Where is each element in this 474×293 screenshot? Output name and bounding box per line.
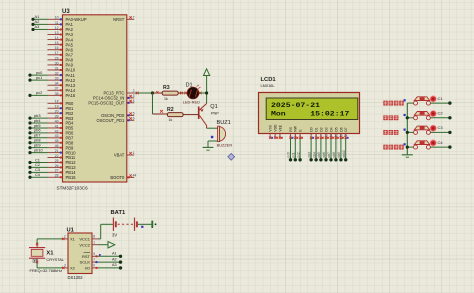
wire net pb6 to U3 [30, 132, 48, 134]
node pb4 [28, 118, 41, 125]
wire LCD pin net pc2 [299, 138, 301, 159]
svg-text:R3: R3 [163, 85, 170, 91]
svg-text:7: 7 [93, 258, 95, 262]
node pb3 [28, 113, 40, 120]
ground under buttons [402, 155, 413, 157]
svg-text:VSS: VSS [269, 124, 273, 131]
junction node on button bus row 2 [406, 116, 409, 119]
battery BAT1 [113, 218, 136, 231]
svg-text:pb4: pb4 [312, 152, 316, 158]
node pb9 [28, 142, 40, 149]
svg-text:Q1: Q1 [210, 104, 217, 110]
svg-text:PA15: PA15 [66, 93, 76, 98]
value FREQ=32.768kHz [30, 268, 63, 273]
svg-text:1k: 1k [164, 97, 168, 101]
svg-text:U3: U3 [62, 9, 70, 15]
node C1 [28, 157, 40, 164]
svg-text:19: 19 [55, 105, 59, 109]
svg-text:2: 2 [64, 235, 66, 239]
LCD text line 1 [271, 102, 320, 109]
svg-text:OSCOUT_PD1: OSCOUT_PD1 [97, 118, 125, 123]
button SW3 state square [404, 129, 406, 131]
wire button SW4 to net C4 [430, 146, 450, 148]
sheet marker diamond [228, 153, 235, 160]
svg-text:7: 7 [133, 16, 135, 20]
node pb6 under LCD [322, 152, 327, 162]
U3 left pin names [66, 17, 87, 180]
svg-text:34: 34 [55, 82, 59, 86]
label U3 [62, 9, 70, 15]
svg-text:SCLK: SCLK [80, 260, 91, 265]
svg-text:C4: C4 [35, 172, 41, 177]
svg-text:pb10: pb10 [34, 147, 43, 152]
svg-text:45: 45 [55, 139, 59, 143]
svg-text:PNP: PNP [211, 112, 219, 116]
label LCD1 [261, 77, 277, 83]
svg-text:VCC1: VCC1 [79, 237, 90, 242]
wire PC13_RTC to junction [134, 92, 152, 95]
U1 pin state squares [96, 254, 101, 269]
node pc0 [28, 70, 43, 77]
chinese label row 2 [383, 115, 398, 120]
terminal at battery positive [152, 221, 156, 228]
wire battery positive terminal [138, 223, 152, 225]
U3 right pin stubs [127, 19, 134, 177]
wire LCD pin net pb5 [320, 138, 322, 159]
node pb10 [28, 147, 43, 154]
svg-text:10: 10 [55, 16, 59, 20]
svg-text:VEE: VEE [278, 124, 282, 131]
svg-text:pc1: pc1 [292, 152, 296, 157]
node C1 [438, 96, 452, 105]
label Q1 [210, 104, 217, 110]
svg-text:41: 41 [55, 124, 59, 128]
node C3 [438, 125, 452, 134]
svg-text:1k: 1k [169, 118, 173, 122]
svg-text:D5: D5 [334, 127, 338, 131]
svg-text:VBAT: VBAT [114, 153, 125, 158]
svg-text:6: 6 [93, 264, 95, 268]
node A1 at U1 [112, 252, 122, 259]
wire Q1 collector to buzzer [207, 127, 218, 129]
svg-text:18: 18 [55, 100, 59, 104]
svg-text:20: 20 [55, 110, 59, 114]
svg-text:3V: 3V [112, 233, 117, 238]
svg-text:26: 26 [55, 164, 59, 168]
svg-text:8: 8 [93, 235, 95, 239]
value PNP for Q1 [211, 112, 219, 116]
wire LCD pin net pb9 [340, 138, 342, 159]
svg-text:44: 44 [133, 174, 137, 178]
svg-text:X1: X1 [70, 237, 76, 242]
svg-text:BOOT0: BOOT0 [110, 175, 125, 180]
LCD pin stubs and markers [269, 134, 347, 140]
svg-text:R2: R2 [167, 107, 174, 113]
value BUZZER [217, 143, 233, 148]
svg-text:1: 1 [93, 240, 95, 244]
svg-text:16: 16 [55, 46, 59, 50]
transistor Q1 PNP [198, 104, 207, 129]
battery state square [141, 226, 143, 228]
svg-text:pb3: pb3 [307, 152, 311, 158]
push button SW3 [407, 126, 430, 134]
svg-text:28: 28 [55, 174, 59, 178]
svg-text:PB15: PB15 [66, 175, 77, 180]
wire net pb9 to U3 [30, 147, 48, 149]
svg-text:LED-RED: LED-RED [183, 100, 200, 105]
node pb7 under LCD [327, 152, 332, 162]
svg-text:VCC2: VCC2 [79, 242, 90, 247]
wire LCD pin net pb10 [345, 138, 347, 159]
svg-text:pb5: pb5 [317, 152, 321, 158]
push button SW1 [407, 97, 430, 105]
node pc2 under LCD [296, 152, 302, 161]
svg-text:pc2: pc2 [36, 90, 42, 95]
button SW2 state square [404, 114, 406, 116]
U1 right pin stubs [92, 239, 98, 268]
svg-text:D4: D4 [329, 127, 333, 131]
svg-text:U1: U1 [67, 228, 75, 234]
wire net A2 to U3 [33, 23, 48, 25]
node pb7 [28, 133, 40, 140]
svg-text:3: 3 [133, 94, 135, 98]
label STM32F103C6 [57, 186, 89, 191]
junction node D1 / VCC line [205, 91, 208, 94]
svg-text:FREQ=32.768kHz: FREQ=32.768kHz [30, 268, 63, 273]
U3 right pin names [88, 17, 125, 180]
chinese label row 1 [383, 101, 403, 106]
svg-text:6: 6 [133, 117, 135, 121]
svg-text:5: 5 [93, 252, 95, 256]
svg-text:RST: RST [82, 254, 91, 259]
svg-text:C3: C3 [438, 125, 444, 130]
U3 right pin state squares [127, 97, 129, 178]
U3 left pin stubs [48, 19, 63, 177]
svg-text:2025-07-21: 2025-07-21 [271, 102, 320, 109]
wire net pb8 to U3 [30, 142, 48, 144]
wire LCD pin net pb6 [325, 138, 327, 159]
svg-text:Mon 15:02:17: Mon 15:02:17 [271, 110, 349, 117]
svg-text:D3: D3 [324, 127, 328, 131]
svg-text:27: 27 [55, 169, 59, 173]
svg-text:25: 25 [55, 159, 59, 163]
wire U1 RST to net A1 [98, 255, 121, 257]
svg-text:pb9: pb9 [337, 152, 341, 158]
label R3 [163, 85, 170, 91]
node pb9 under LCD [337, 152, 342, 162]
svg-text:4: 4 [133, 99, 135, 103]
svg-text:17: 17 [55, 51, 59, 55]
wire button SW1 to net C1 [430, 102, 450, 104]
svg-text:RW: RW [294, 125, 298, 131]
svg-text:39: 39 [55, 114, 59, 118]
svg-text:46: 46 [55, 144, 59, 148]
svg-text:14: 14 [55, 36, 59, 40]
wire button SW3 to net C3 [430, 131, 450, 133]
node C4 [438, 140, 452, 149]
wire net pc2 to U3 [30, 94, 48, 96]
svg-text:C1: C1 [438, 96, 444, 101]
label BAT1 [111, 210, 126, 216]
svg-text:D6: D6 [339, 127, 343, 131]
svg-text:CRYSTAL: CRYSTAL [46, 257, 64, 262]
LCD display LCD1 body [259, 93, 360, 134]
svg-text:11: 11 [55, 21, 59, 25]
LCD pin numbers [269, 133, 347, 137]
wire LCD pin net pb8 [335, 138, 337, 159]
svg-text:STM32F103C6: STM32F103C6 [57, 186, 89, 191]
U3 right pin end markers [129, 16, 131, 177]
resistor R3 [153, 91, 184, 95]
wire U1 SCLK to net A2 [98, 261, 121, 263]
wire net pb7 to U3 [30, 137, 48, 139]
resistor R2 [153, 110, 199, 117]
svg-text:31: 31 [55, 66, 59, 70]
RTC chip U1 body [68, 233, 92, 274]
junction node at R3/R2 split [151, 91, 154, 94]
push button SW4 [407, 141, 430, 149]
svg-text:30: 30 [55, 61, 59, 65]
svg-text:40: 40 [55, 119, 59, 123]
label BUZ1 [217, 120, 231, 126]
wire LCD pin net pb7 [330, 138, 332, 159]
svg-text:DS1302: DS1302 [68, 275, 84, 280]
node A3 at U1 [112, 263, 122, 269]
LCD screen [266, 98, 358, 120]
svg-text:pc0: pc0 [287, 152, 291, 157]
LCD pin names [269, 124, 349, 132]
wire net C3 to U3 [30, 171, 48, 173]
svg-text:37: 37 [55, 87, 59, 91]
button SW4 actuator [430, 140, 436, 146]
node C4 [28, 172, 40, 179]
LCD pin state squares [271, 137, 348, 139]
node pb4 under LCD [312, 152, 318, 162]
wire U1 I/O to net A3 [98, 267, 121, 269]
wire net pb4 to U3 [30, 122, 48, 124]
wire junction down to R2 [153, 93, 160, 114]
svg-text:PC15-OSC32_OUT: PC15-OSC32_OUT [88, 101, 124, 106]
value LED-RED for D1 [183, 100, 200, 105]
value 1k for R3 [164, 97, 168, 101]
svg-text:A2: A2 [112, 257, 117, 261]
node C3 [28, 167, 40, 174]
svg-text:21: 21 [55, 149, 59, 153]
svg-text:pb8: pb8 [332, 152, 336, 158]
svg-text:D1: D1 [186, 83, 193, 89]
button SW2 actuator [430, 111, 436, 117]
U3 left pin numbers [55, 16, 59, 178]
svg-text:D0: D0 [310, 127, 314, 131]
node A3 [31, 24, 39, 31]
node pb6 [28, 128, 40, 135]
chinese label row 3 [383, 130, 398, 135]
U3 right pin numbers [133, 16, 137, 178]
wire net C2 to U3 [30, 166, 48, 168]
node pb8 under LCD [332, 152, 337, 162]
buzzer BUZ1 [218, 126, 226, 141]
wire LCD pin net pc0 [290, 138, 292, 159]
svg-text:13: 13 [55, 31, 59, 35]
node pb5 [28, 123, 40, 130]
node pb10 under LCD [342, 150, 348, 161]
svg-text:LM016L: LM016L [261, 83, 276, 88]
label U1 [67, 228, 75, 234]
svg-text:pb6: pb6 [322, 152, 326, 158]
svg-text:A3: A3 [112, 263, 117, 267]
svg-text:BUZ1: BUZ1 [217, 120, 231, 126]
svg-text:3: 3 [64, 264, 66, 268]
value DS1302 [68, 275, 84, 280]
svg-text:VDD: VDD [274, 124, 278, 132]
svg-text:D2: D2 [319, 127, 323, 131]
wire net A1 to U3 [33, 18, 48, 20]
svg-text:15: 15 [55, 41, 59, 45]
svg-text:X2: X2 [70, 266, 76, 271]
svg-text:32: 32 [55, 71, 59, 75]
svg-text:I/O: I/O [85, 266, 90, 271]
crystal X1 [29, 243, 45, 263]
junction node on button bus row 4 [406, 146, 409, 149]
svg-text:1: 1 [133, 151, 135, 155]
wire crystal to U1 X2 [37, 263, 62, 268]
svg-text:BUZZER: BUZZER [217, 143, 233, 148]
button SW4 state square [404, 143, 406, 145]
value LM016L [261, 83, 276, 88]
label D1 [186, 83, 193, 89]
svg-text:42: 42 [55, 129, 59, 133]
LCD text line 2 [271, 110, 349, 117]
label X1 [46, 250, 54, 256]
svg-text:C2: C2 [438, 111, 444, 116]
node pc1 under LCD [292, 152, 297, 161]
wire net pb10 to U3 [30, 152, 48, 154]
power terminal VCC above D1 [204, 69, 210, 104]
wire net pc1 to U3 [30, 79, 48, 81]
wire net pc0 to U3 [30, 74, 48, 76]
node pb3 under LCD [307, 152, 313, 162]
svg-text:33: 33 [55, 77, 59, 81]
node A1 [31, 14, 39, 21]
LED D1 [183, 85, 207, 99]
U1 pin names [70, 237, 91, 271]
button SW1 actuator [430, 96, 436, 102]
button SW3 actuator [430, 125, 436, 131]
node A2 [31, 19, 39, 26]
U3 left pin state squares [60, 18, 62, 178]
svg-text:X1: X1 [46, 250, 54, 256]
svg-text:pc1: pc1 [36, 75, 42, 80]
node C2 [438, 111, 452, 120]
value 1k for R2 [169, 118, 173, 122]
microcontroller U3 body [63, 15, 127, 182]
node pb5 under LCD [317, 152, 322, 162]
wire net pb3 to U3 [30, 117, 48, 119]
wire LCD pin net pb3 [310, 138, 312, 159]
svg-text:pb10: pb10 [342, 150, 346, 157]
svg-text:D1: D1 [315, 127, 319, 131]
node C2 [28, 162, 40, 169]
push button SW2 [407, 112, 430, 120]
svg-text:38: 38 [55, 92, 59, 96]
wire LCD pin net pc1 [294, 138, 296, 159]
svg-text:5: 5 [133, 112, 135, 116]
wire net A3 to U3 [33, 28, 48, 30]
wire net C4 to U3 [30, 176, 48, 178]
U1 left pin stubs [62, 238, 68, 269]
wire button SW2 to net C2 [430, 117, 450, 119]
junction node on button bus row 3 [406, 131, 409, 134]
svg-text:RS: RS [289, 126, 293, 131]
svg-text:pb7: pb7 [327, 152, 331, 158]
svg-text:C4: C4 [438, 140, 444, 145]
chinese label row 4 [383, 145, 403, 150]
svg-text:pc2: pc2 [296, 152, 300, 157]
svg-text:A3: A3 [35, 24, 40, 29]
power terminal on VCC2 [98, 242, 115, 248]
wire net C1 to U3 [30, 161, 48, 163]
wire crystal to U1 X1 [37, 239, 62, 243]
wire VCC1 to battery [98, 224, 113, 239]
svg-text:29: 29 [55, 56, 59, 60]
buzzer pin state square [211, 136, 213, 138]
svg-text:BAT1: BAT1 [111, 210, 126, 216]
value CRYSTAL [46, 257, 64, 262]
svg-text:D7: D7 [344, 127, 348, 131]
U1 pin numbers [64, 235, 95, 268]
wire LCD pin net pb4 [315, 138, 317, 159]
node pc2 [28, 90, 42, 97]
wire buzzer to ground [208, 141, 218, 147]
svg-text:NRST: NRST [113, 17, 125, 22]
button SW1 state square [404, 99, 406, 101]
svg-text:A1: A1 [112, 252, 117, 256]
node pc1 [28, 75, 42, 82]
svg-text:43: 43 [55, 134, 59, 138]
value 3V [112, 233, 117, 238]
buttons common bus wire [406, 103, 408, 155]
svg-text:12: 12 [55, 26, 59, 30]
svg-text:22: 22 [55, 154, 59, 158]
label R2 [167, 107, 174, 113]
crystal X1 state square [33, 259, 36, 262]
wire net pb5 to U3 [30, 127, 48, 129]
node pc0 under LCD [287, 152, 292, 161]
ground under buzzer [203, 147, 214, 150]
node pb8 [28, 138, 40, 145]
node A2 at U1 [112, 257, 122, 264]
